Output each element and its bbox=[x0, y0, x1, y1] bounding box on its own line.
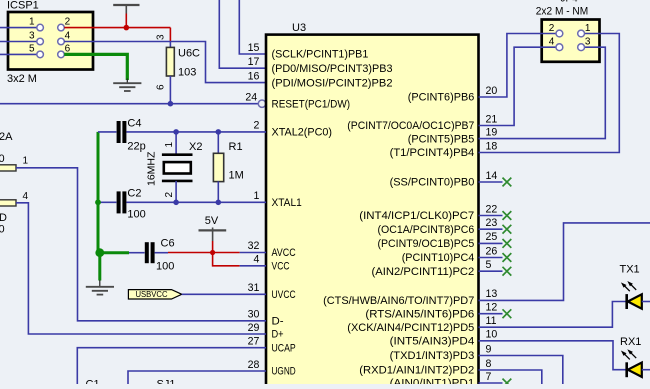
svg-text:0: 0 bbox=[0, 153, 5, 165]
junction XTAL2/X2 bbox=[173, 129, 179, 135]
wire RX1 anode bbox=[642, 369, 650, 371]
svg-text:25: 25 bbox=[486, 231, 498, 243]
wire XTAL2 net bbox=[126, 131, 266, 133]
svg-text:20: 20 bbox=[486, 85, 498, 97]
wire R1 bottom pin bbox=[217, 181, 219, 202]
junction XTAL2/R1 bbox=[216, 129, 222, 135]
wire stub PC6 bbox=[479, 228, 503, 230]
wire stub PC4 bbox=[479, 257, 503, 259]
svg-text:9: 9 bbox=[486, 343, 492, 355]
wire stub PB0 bbox=[479, 181, 503, 183]
svg-text:C2: C2 bbox=[127, 188, 141, 200]
supply symbol 5V bbox=[199, 228, 227, 242]
op-amp U3 IC body bbox=[266, 35, 479, 389]
svg-text:18: 18 bbox=[486, 140, 498, 152]
connector ICSP1 bbox=[8, 12, 93, 70]
no-connect X PC5 bbox=[503, 239, 512, 248]
svg-text:11: 11 bbox=[486, 315, 497, 327]
svg-text:U3: U3 bbox=[292, 22, 306, 34]
svg-text:U6C: U6C bbox=[178, 48, 200, 60]
svg-text:1M: 1M bbox=[229, 170, 244, 182]
svg-text:15: 15 bbox=[248, 42, 260, 54]
svg-text:22p: 22p bbox=[127, 141, 145, 153]
svg-text:(INT4/ICP1/CLK0)PC7: (INT4/ICP1/CLK0)PC7 bbox=[359, 210, 474, 222]
wire stub PC7 bbox=[479, 215, 503, 217]
svg-text:XTAL1: XTAL1 bbox=[272, 197, 302, 209]
svg-text:(TXD1/INT3)PD3: (TXD1/INT3)PD3 bbox=[390, 350, 475, 362]
svg-text:AVCC: AVCC bbox=[272, 247, 296, 259]
svg-text:(XCK/AIN4/PCINT12)PD5: (XCK/AIN4/PCINT12)PD5 bbox=[347, 322, 474, 334]
svg-text:21: 21 bbox=[486, 113, 498, 125]
wire MISO to pin 17 bbox=[219, 0, 266, 68]
svg-text:UGND: UGND bbox=[272, 366, 296, 378]
svg-text:3: 3 bbox=[29, 31, 35, 42]
svg-text:(PCINT10)PC4: (PCINT10)PC4 bbox=[402, 252, 475, 264]
svg-text:(RTS/AIN5/INT6)PD6: (RTS/AIN5/INT6)PD6 bbox=[365, 308, 474, 320]
wire TX1 anode bbox=[642, 301, 650, 303]
svg-text:SJ1: SJ1 bbox=[157, 379, 176, 385]
net label USBVCC bbox=[128, 290, 181, 299]
svg-text:13: 13 bbox=[486, 288, 498, 300]
svg-text:UCAP: UCAP bbox=[272, 342, 296, 354]
pin 24 RESET inverted circle bbox=[258, 100, 265, 107]
pin 2 ICSP1 bbox=[58, 24, 65, 31]
wire AVCC (red) bbox=[168, 252, 240, 254]
LED TX1 arrows bbox=[622, 282, 636, 291]
no-connect X PB0 bbox=[503, 178, 512, 187]
svg-text:(PCINT7/OC0A/OC1C)PB7: (PCINT7/OC0A/OC1C)PB7 bbox=[347, 120, 474, 132]
svg-text:(AIN2/PCINT11)PC2: (AIN2/PCINT11)PC2 bbox=[372, 266, 475, 278]
no-connect X PC6 bbox=[503, 225, 512, 234]
wire 5V drop (red) bbox=[212, 241, 214, 253]
wire 2x2 pin3 to PB5 bbox=[479, 47, 606, 138]
wire ICSP pin3 (SCK) bbox=[0, 41, 37, 43]
wire stub PC2 bbox=[479, 270, 503, 272]
svg-text:TX1: TX1 bbox=[620, 264, 640, 276]
LED TX1 bbox=[627, 294, 642, 309]
svg-text:27: 27 bbox=[248, 336, 260, 348]
svg-text:D: D bbox=[0, 212, 7, 224]
svg-text:1: 1 bbox=[23, 156, 29, 167]
wire X2 bottom pin bbox=[175, 181, 177, 202]
svg-text:16MHZ: 16MHZ bbox=[146, 151, 158, 186]
svg-text:(PCINT5)PB5: (PCINT5)PB5 bbox=[408, 133, 475, 145]
wire U6C top pin bbox=[169, 42, 171, 48]
junction GND/C2 bbox=[95, 199, 101, 205]
svg-text:(AIN0/INT1)PD1: (AIN0/INT1)PD1 bbox=[390, 378, 475, 384]
ground symbol (ICSP) bbox=[113, 79, 141, 92]
pin 4 (2x2) bbox=[556, 44, 563, 51]
junction RESET/U6C bbox=[168, 101, 174, 107]
pin 5 ICSP1 bbox=[37, 51, 44, 58]
svg-text:(INT5/AIN3)PD4: (INT5/AIN3)PD4 bbox=[390, 336, 475, 348]
crystal X2 bbox=[162, 155, 193, 181]
svg-text:(PCINT6)PB6: (PCINT6)PB6 bbox=[408, 92, 475, 104]
wire VCC (red) bbox=[213, 253, 240, 266]
svg-text:(SS/PCINT0)PB0: (SS/PCINT0)PB0 bbox=[390, 177, 475, 189]
pin 1 (2x2) bbox=[578, 30, 585, 37]
wire stub PD6 bbox=[479, 313, 503, 315]
pin 1 ICSP1 bbox=[37, 24, 44, 31]
pin 4 ICSP1 bbox=[58, 38, 65, 45]
wire ICSP pin5 (RESET) bbox=[0, 53, 37, 55]
LED RX1 arrows bbox=[622, 350, 636, 359]
svg-text:1: 1 bbox=[164, 142, 175, 148]
svg-text:26: 26 bbox=[486, 245, 498, 257]
svg-text:14: 14 bbox=[486, 170, 498, 182]
wire PD2 net bbox=[479, 370, 542, 384]
svg-text:RX1: RX1 bbox=[620, 336, 641, 348]
wire X2 top pin bbox=[175, 132, 177, 155]
svg-text:(PCINT9/OC1B)PC5: (PCINT9/OC1B)PC5 bbox=[378, 238, 475, 250]
pin 2 (2x2) bbox=[556, 30, 563, 37]
svg-text:0: 0 bbox=[0, 223, 5, 235]
svg-text:16: 16 bbox=[248, 70, 260, 82]
wire PD5 to TX LED bbox=[479, 302, 627, 328]
varistor Z2 (clipped) bbox=[0, 200, 16, 206]
wire UVCC bbox=[182, 293, 266, 295]
svg-text:31: 31 bbox=[248, 282, 260, 294]
pin 6 ICSP1 bbox=[58, 51, 65, 58]
junction VCC bbox=[124, 25, 130, 31]
supply symbol 5V (top) bbox=[113, 5, 139, 14]
svg-text:(OC1A/PCINT8)PC6: (OC1A/PCINT8)PC6 bbox=[378, 224, 475, 236]
no-connect X PC4 bbox=[503, 253, 512, 262]
svg-text:RESET(PC1/DW): RESET(PC1/DW) bbox=[272, 98, 351, 110]
svg-text:2: 2 bbox=[164, 192, 175, 198]
svg-text:100: 100 bbox=[127, 209, 145, 221]
wire RESET bbox=[0, 103, 258, 105]
svg-text:1: 1 bbox=[585, 23, 591, 34]
svg-text:32: 32 bbox=[248, 240, 260, 252]
svg-text:4: 4 bbox=[253, 254, 259, 266]
wire SCK to pin 15 bbox=[239, 0, 266, 54]
svg-text:2: 2 bbox=[65, 17, 71, 28]
svg-text:30: 30 bbox=[248, 309, 260, 321]
svg-text:C6: C6 bbox=[161, 238, 175, 250]
wire VCC net from ICSP pin 2 bbox=[64, 27, 170, 29]
svg-text:17: 17 bbox=[248, 56, 260, 68]
junction AVCC/5V bbox=[210, 250, 215, 255]
LED RX1 bbox=[627, 362, 642, 377]
svg-text:2A: 2A bbox=[0, 131, 13, 143]
wire 2x2 pin1 to PB4 bbox=[479, 34, 620, 153]
svg-text:(RXD1/AIN1/INT2)PD2: (RXD1/AIN1/INT2)PD2 bbox=[359, 365, 474, 377]
junction XTAL1/R1 bbox=[216, 200, 222, 206]
svg-text:23: 23 bbox=[486, 217, 498, 229]
capacitor C4 bbox=[98, 121, 126, 143]
capacitor C6 bbox=[129, 242, 168, 263]
svg-text:C4: C4 bbox=[127, 118, 141, 130]
wire UCAP net bbox=[77, 348, 266, 384]
svg-text:2: 2 bbox=[549, 23, 555, 34]
svg-text:3: 3 bbox=[585, 37, 591, 48]
wire U6C bottom pin bbox=[169, 76, 171, 104]
svg-text:103: 103 bbox=[178, 67, 196, 79]
svg-text:X2: X2 bbox=[189, 141, 202, 153]
wire VCC to R pullup bbox=[169, 28, 171, 42]
svg-text:(PD0/MISO/PCINT3)PB3: (PD0/MISO/PCINT3)PB3 bbox=[272, 63, 393, 75]
resistor U6C bbox=[166, 47, 174, 76]
svg-text:3: 3 bbox=[156, 34, 167, 40]
fuse F1 (clipped) bbox=[0, 165, 16, 171]
wire GND rail (green vertical) bbox=[97, 132, 100, 253]
svg-text:(SCLK/PCINT1)PB1: (SCLK/PCINT1)PB1 bbox=[272, 49, 369, 61]
wire D+ net bbox=[16, 203, 266, 334]
svg-text:(CTS/HWB/AIN6/TO/INT7)PD7: (CTS/HWB/AIN6/TO/INT7)PD7 bbox=[323, 295, 474, 307]
svg-text:3x2 M: 3x2 M bbox=[7, 73, 37, 85]
wire AVCC pin stub bbox=[240, 252, 266, 254]
wire GND rail lower bbox=[98, 253, 101, 281]
connector 2x2 bbox=[542, 20, 600, 62]
svg-text:5: 5 bbox=[486, 259, 492, 271]
svg-text:UVCC: UVCC bbox=[272, 289, 296, 301]
svg-text:4: 4 bbox=[23, 191, 29, 202]
svg-text:R1: R1 bbox=[229, 141, 243, 153]
pin 3 (2x2) bbox=[578, 44, 585, 51]
capacitor C2 bbox=[98, 191, 126, 213]
wire 2x2 pin2 to PB6 bbox=[479, 34, 557, 98]
svg-text:8: 8 bbox=[486, 358, 492, 370]
svg-text:XTAL2(PC0): XTAL2(PC0) bbox=[272, 127, 333, 139]
pin 3 ICSP1 bbox=[37, 38, 44, 45]
no-connect X PD1 bbox=[503, 379, 512, 388]
svg-text:7: 7 bbox=[486, 371, 492, 383]
wire XTAL1 net bbox=[126, 201, 266, 203]
wire stub PC5 bbox=[479, 242, 503, 244]
svg-text:6: 6 bbox=[65, 43, 71, 54]
svg-text:28: 28 bbox=[248, 359, 260, 371]
no-connect X PD6 bbox=[503, 309, 512, 318]
svg-text:ICSP1: ICSP1 bbox=[7, 0, 39, 12]
wire PD3 net bbox=[479, 356, 563, 385]
svg-text:1: 1 bbox=[29, 17, 35, 28]
svg-text:(PDI/MOSI/PCINT2)PB2: (PDI/MOSI/PCINT2)PB2 bbox=[272, 77, 393, 89]
no-connect X PC2 bbox=[503, 267, 512, 276]
wire PD4 to RX LED bbox=[479, 341, 627, 370]
svg-text:D+: D+ bbox=[272, 329, 284, 341]
svg-text:29: 29 bbox=[248, 322, 260, 334]
wire GND to C6 bbox=[98, 251, 129, 254]
wire PD7 net bbox=[479, 223, 650, 301]
svg-text:4: 4 bbox=[549, 37, 555, 48]
svg-text:JP4: JP4 bbox=[561, 0, 579, 5]
junction XTAL1/X2 bbox=[173, 200, 179, 206]
wire ICSP pin1 (MISO) bbox=[0, 27, 37, 29]
svg-text:2x2 M - NM: 2x2 M - NM bbox=[536, 5, 588, 17]
svg-text:(T1/PCINT4)PB4: (T1/PCINT4)PB4 bbox=[390, 147, 475, 159]
svg-text:2: 2 bbox=[253, 120, 259, 132]
svg-text:C1: C1 bbox=[86, 379, 100, 385]
svg-text:USBVCC: USBVCC bbox=[136, 290, 168, 299]
resistor R1 bbox=[213, 153, 223, 181]
junction GND/C6 bbox=[95, 248, 104, 257]
svg-text:10: 10 bbox=[486, 329, 498, 341]
svg-text:D-: D- bbox=[272, 316, 284, 328]
wire stub PD1 bbox=[479, 382, 503, 384]
svg-text:5V: 5V bbox=[205, 215, 219, 227]
wire 2x2 pin4 to PB7 bbox=[479, 47, 557, 125]
svg-text:24: 24 bbox=[245, 92, 257, 104]
svg-text:4: 4 bbox=[65, 31, 71, 42]
svg-text:12: 12 bbox=[486, 302, 498, 314]
wire D- net bbox=[16, 168, 266, 321]
ground symbol (main) bbox=[86, 280, 114, 295]
wire GND from ICSP pin 6 bbox=[64, 54, 127, 80]
no-connect X PC7 bbox=[503, 211, 512, 220]
svg-text:19: 19 bbox=[486, 126, 498, 138]
svg-text:6: 6 bbox=[156, 84, 167, 90]
svg-text:22: 22 bbox=[486, 203, 498, 215]
svg-text:5: 5 bbox=[29, 43, 35, 54]
svg-text:100: 100 bbox=[156, 261, 174, 273]
svg-text:1: 1 bbox=[253, 190, 259, 202]
wire UGND net bbox=[128, 371, 266, 384]
wire supply drop bbox=[125, 14, 127, 28]
wire MOSI from ICSP pin 4 bbox=[64, 42, 266, 83]
wire R1 top pin bbox=[217, 132, 219, 154]
svg-text:VCC: VCC bbox=[272, 261, 290, 273]
wire VCC pin stub bbox=[240, 265, 266, 267]
